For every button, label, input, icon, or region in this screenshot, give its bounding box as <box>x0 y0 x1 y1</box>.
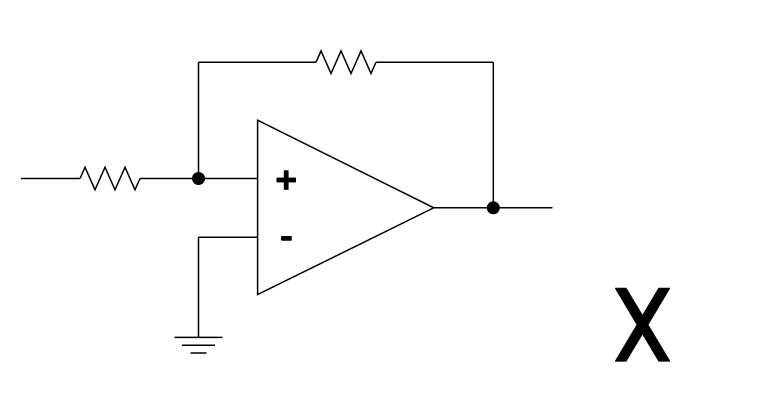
node A junction dot <box>192 172 205 185</box>
wire feedback top left <box>199 61 317 63</box>
wire input left segment <box>21 178 80 180</box>
wire feedback top right <box>376 61 493 63</box>
op-amp U1 triangle <box>258 120 434 294</box>
wire inverting input horizontal <box>199 236 258 238</box>
resistor R2 (feedback) <box>316 51 376 74</box>
wire input resistor to node A <box>140 178 258 180</box>
wire inverting input down to ground <box>198 237 200 337</box>
op-amp minus label <box>281 236 292 241</box>
wire node A up to feedback <box>198 62 200 178</box>
wire output <box>434 207 553 209</box>
op-amp plus label <box>277 170 297 190</box>
label X <box>615 288 669 361</box>
ground <box>175 337 223 353</box>
node B output junction dot <box>487 201 500 214</box>
resistor R1 (input) <box>80 167 140 190</box>
wire feedback down to output node <box>492 62 494 208</box>
